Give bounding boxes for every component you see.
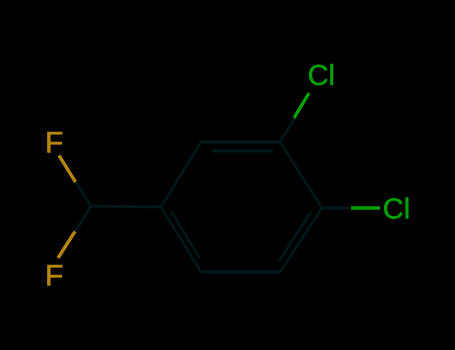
wire ring edge R-LR	[280, 208, 322, 272]
wire ring edge UR-R	[280, 142, 322, 208]
svg-text:F: F	[45, 127, 63, 160]
wire ring edge LL-L	[161, 207, 201, 272]
bond Cl1-C2 green half	[294, 93, 309, 118]
wire bond C2-Cl upper dark half	[280, 118, 295, 142]
bond F1-C7 olive half	[59, 156, 76, 183]
wire bond C3-Cl right dark half	[322, 207, 350, 209]
bond Cl2-C3 green half	[351, 206, 380, 209]
wire bond C7-F upper dark half	[75, 181, 91, 206]
svg-text:F: F	[45, 260, 63, 293]
wire inner double bond top	[212, 150, 273, 152]
wire ring edge LR-LL	[201, 271, 280, 273]
wire ring edge L-UL	[161, 142, 201, 207]
wire bond C7-F lower dark half	[75, 206, 91, 232]
wire inner double bond lower-left	[171, 211, 200, 259]
svg-text:Cl: Cl	[308, 60, 335, 92]
wire bond C1-C7 (ring to CHF2 carbon)	[91, 206, 161, 207]
bond F2-C7 olive half	[58, 232, 75, 259]
svg-text:Cl: Cl	[383, 194, 410, 226]
benzene ring C1-C6	[75, 118, 350, 272]
wire inner double bond right	[279, 212, 311, 261]
wire ring edge UL-UR	[201, 141, 280, 143]
